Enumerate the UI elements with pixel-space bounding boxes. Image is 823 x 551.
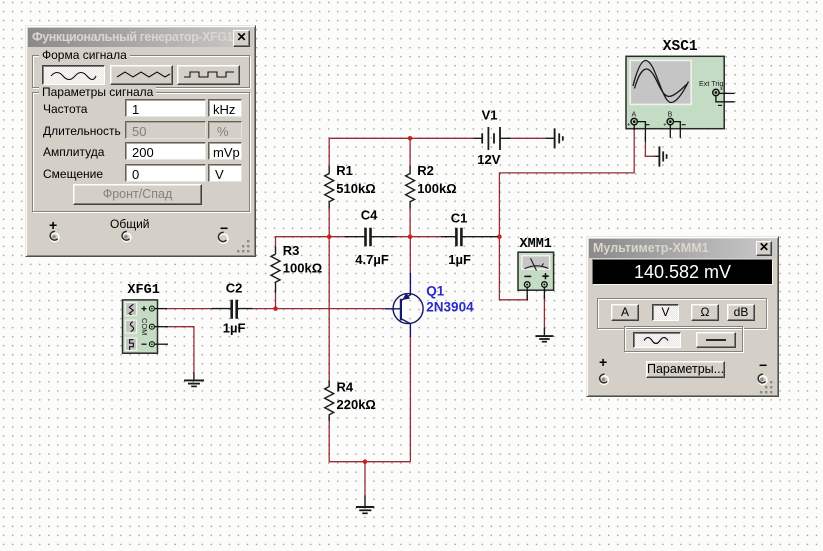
wire XSC A minus to ground: [645, 142, 656, 157]
svg-text:C4: C4: [361, 208, 378, 223]
wire R1 bottom to mid rail: [328, 208, 330, 237]
wire R3 bottom to base junction: [275, 292, 277, 308]
multimeter window: [586, 236, 779, 397]
svg-text:220kΩ: 220kΩ: [337, 397, 376, 412]
svg-text:510kΩ: 510kΩ: [336, 181, 375, 196]
capacitor C4: [345, 228, 397, 247]
wire mid rail R3 jog to R1 column: [276, 237, 346, 248]
junction node C1 output: [497, 234, 502, 239]
wire XFG plus to C2: [167, 308, 213, 310]
wire top rail from R1 top to V1: [329, 138, 474, 167]
wire C1 out junction down to XMM minus: [499, 237, 527, 300]
function generator window: [25, 25, 256, 257]
svg-text:R3: R3: [283, 243, 300, 258]
transistor Q1: [385, 273, 423, 337]
resistor R1: [325, 166, 334, 209]
multimeter XMM1 icon: [518, 252, 554, 300]
svg-text:Ext Trig.: Ext Trig.: [699, 79, 725, 88]
wire XSC channel A down-left to C1 out junction: [499, 130, 634, 237]
capacitor C1: [441, 228, 498, 247]
capacitor C2: [212, 300, 253, 319]
svg-text:R1: R1: [336, 163, 353, 178]
wire collector column: [409, 237, 411, 274]
wire mid rail C4 to R2 column: [396, 236, 442, 238]
junction node collector mid rail: [408, 234, 413, 239]
wire R4 bottom to bottom rail: [329, 421, 410, 462]
svg-text:1µF: 1µF: [448, 252, 471, 267]
ground below XSC A minus (rotated): [656, 146, 667, 166]
svg-text:12V: 12V: [477, 152, 500, 167]
svg-text:1µF: 1µF: [223, 320, 246, 335]
svg-text:R2: R2: [417, 163, 434, 178]
resistor R3: [271, 247, 280, 293]
battery V1: [474, 127, 511, 150]
ground bottom center: [356, 496, 374, 514]
wire emitter column: [409, 337, 411, 462]
svg-text:B: B: [668, 111, 673, 118]
wire R1 column down to R4: [328, 237, 330, 381]
wire R2 top column: [409, 138, 411, 167]
junction node base R3: [273, 306, 278, 311]
oscilloscope XSC1 icon: [626, 56, 735, 142]
wire XMM plus to ground: [543, 295, 545, 328]
function generator XFG1 icon: [123, 300, 169, 353]
ground XMM plus: [535, 328, 553, 342]
ground right of V1 (rotated): [546, 128, 563, 148]
junction node R2 top: [408, 136, 413, 141]
svg-text:2N3904: 2N3904: [426, 300, 474, 315]
svg-text:Q1: Q1: [426, 283, 445, 298]
junction node R1 bottom mid rail: [327, 234, 332, 239]
wire bottom ground tap: [364, 462, 366, 497]
svg-text:V1: V1: [482, 107, 498, 122]
wire C2 to base junction to Q1 base: [252, 307, 386, 310]
svg-text:100kΩ: 100kΩ: [417, 181, 456, 196]
resistor R2: [406, 166, 415, 209]
wire R2 bottom to mid rail: [409, 208, 411, 237]
resistor R4: [325, 381, 334, 422]
svg-text:A: A: [632, 111, 637, 118]
svg-text:XSC1: XSC1: [663, 39, 698, 55]
svg-text:100kΩ: 100kΩ: [283, 261, 322, 276]
svg-text:C1: C1: [451, 211, 468, 226]
svg-text:XMM1: XMM1: [520, 237, 552, 252]
svg-text:COM: COM: [140, 318, 149, 335]
svg-text:4.7µF: 4.7µF: [355, 252, 389, 267]
svg-text:XFG1: XFG1: [127, 283, 159, 298]
wire V1 to ground stub: [510, 137, 546, 139]
ground XFG COM: [184, 373, 204, 387]
junction node bottom rail ground: [363, 459, 368, 464]
svg-text:R4: R4: [337, 380, 354, 395]
wire XFG COM to ground: [168, 327, 194, 373]
svg-text:C2: C2: [226, 281, 243, 296]
